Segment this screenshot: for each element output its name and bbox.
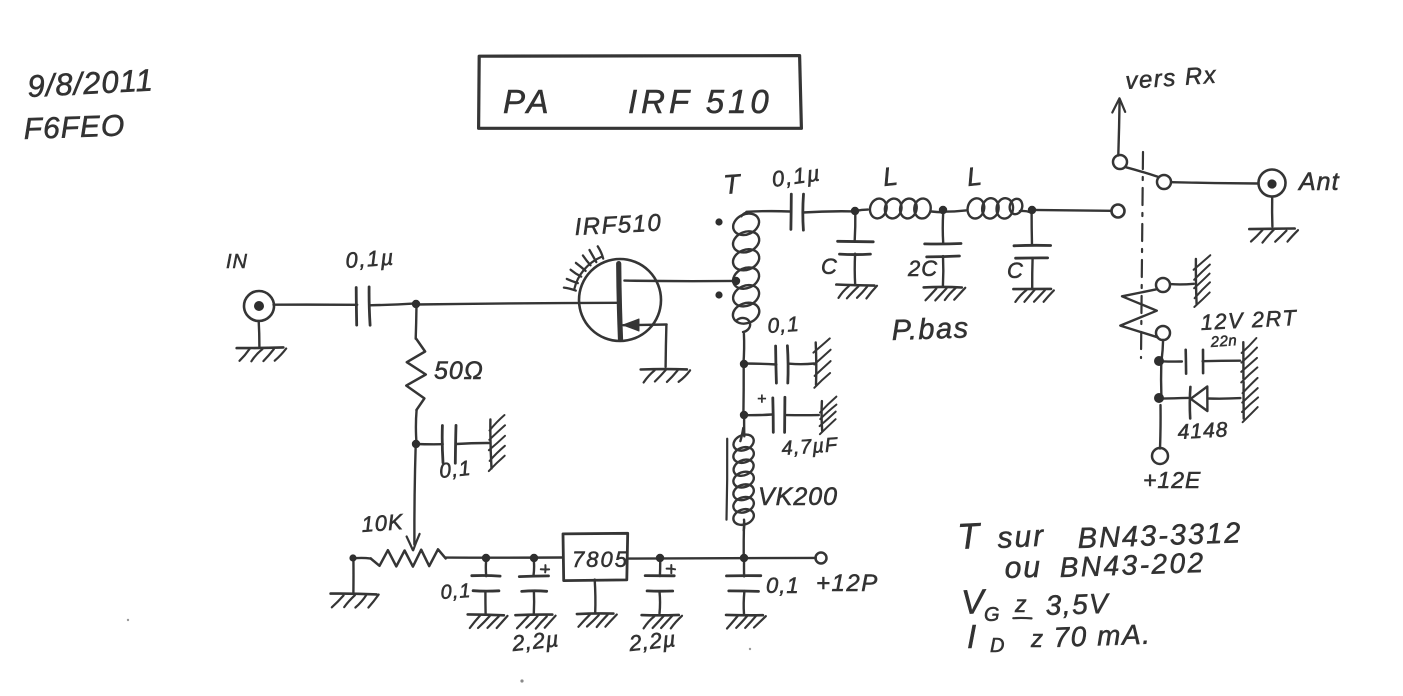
svg-text:2C: 2C [907,256,938,281]
svg-text:+12E: +12E [1143,467,1201,493]
svg-text:L: L [965,160,985,192]
svg-text:I: I [967,618,977,655]
svg-text:12V 2RT: 12V 2RT [1200,305,1298,335]
svg-text:70 mA.: 70 mA. [1053,619,1152,653]
svg-text:9/8/2011: 9/8/2011 [27,62,155,104]
svg-text:7805: 7805 [572,547,629,572]
svg-text:z: z [1030,626,1044,653]
svg-text:Ant: Ant [1297,168,1340,196]
svg-text:PA: PA [503,83,553,120]
svg-text:VK200: VK200 [758,483,838,511]
svg-text:IN: IN [226,251,248,273]
svg-text:IRF 510: IRF 510 [628,83,773,120]
svg-text:P.bas: P.bas [891,312,970,347]
svg-text:50Ω: 50Ω [434,357,484,385]
svg-text:D: D [990,635,1005,657]
svg-text:+: + [757,391,766,408]
svg-text:4,7µF: 4,7µF [781,434,840,460]
svg-text:0,1: 0,1 [766,573,800,598]
svg-text:2,2µ: 2,2µ [627,626,678,656]
svg-text:sur: sur [997,520,1046,555]
svg-text:+12P: +12P [816,570,879,597]
svg-text:T: T [722,169,743,200]
svg-text:4148: 4148 [1177,418,1229,444]
svg-text:IRF510: IRF510 [574,209,663,241]
svg-text:z: z [1014,591,1028,617]
svg-text:G: G [984,604,1001,626]
svg-text:BN43-202: BN43-202 [1059,547,1206,583]
svg-text:C: C [1007,258,1024,283]
svg-text:0,1µ: 0,1µ [345,245,396,273]
svg-text:F6FEO: F6FEO [23,109,126,146]
svg-text:C: C [821,254,838,279]
svg-text:10K: 10K [361,509,405,537]
svg-text:22n: 22n [1209,332,1238,351]
svg-text:0,1: 0,1 [438,457,472,483]
svg-text:0,1: 0,1 [767,313,801,338]
svg-text:ou: ou [1004,551,1043,585]
svg-text:2,2µ: 2,2µ [510,626,561,656]
svg-text:L: L [881,160,901,192]
svg-text:0,1: 0,1 [440,580,472,604]
svg-text:T: T [956,515,983,557]
svg-text:3,5V: 3,5V [1045,588,1110,621]
